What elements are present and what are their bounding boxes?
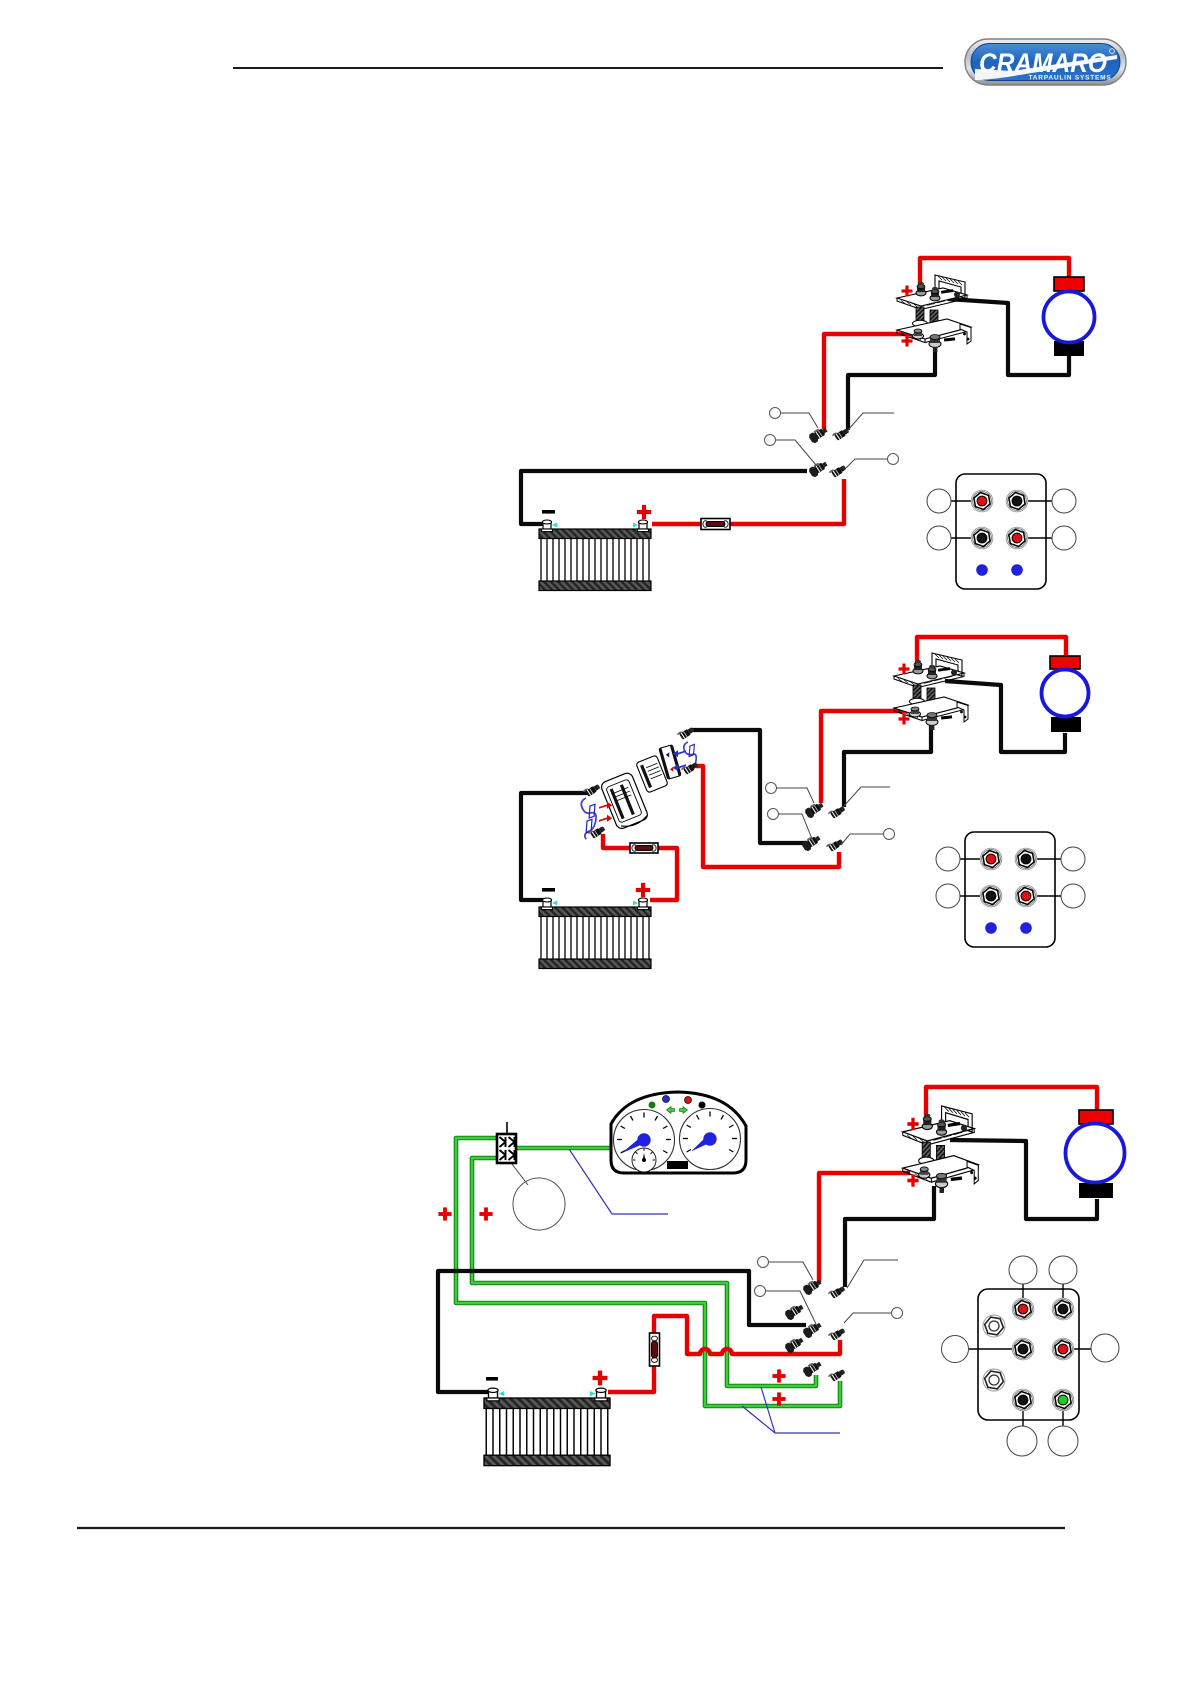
callout leader mid-left bbox=[766, 1291, 816, 1324]
odometer display bbox=[667, 1161, 688, 1169]
connector block CB3 bbox=[942, 1256, 1120, 1456]
callout leader upper-left bbox=[768, 1262, 813, 1280]
wire red assembly to fuse to battery plus bbox=[603, 834, 630, 848]
wire red fuse to connector e with hops bbox=[654, 1316, 840, 1354]
callout leader lower-right bbox=[841, 834, 884, 845]
battery switch assembly (exploded) bbox=[581, 725, 699, 840]
middle housing bbox=[636, 755, 668, 793]
plus label switch feed 1 bbox=[438, 1207, 451, 1220]
callout leader upper-left bbox=[781, 413, 818, 428]
assembly terminals bbox=[583, 782, 601, 798]
wire black relay plate to motor bbox=[945, 681, 1065, 752]
fuse F1 bbox=[701, 519, 730, 530]
relay K3 bbox=[903, 1106, 978, 1193]
blue clip right bbox=[684, 742, 696, 770]
wire black upper connector to relay bottom terminal bbox=[848, 344, 935, 430]
callout leader mid-right bbox=[844, 1313, 891, 1323]
blue clip left bbox=[581, 798, 596, 839]
wire black relay bottom to upper connector bbox=[844, 722, 931, 807]
motor M1 bbox=[1044, 277, 1095, 356]
battery minus label bbox=[542, 510, 555, 514]
callout leader upper-right bbox=[848, 413, 894, 430]
blue leader cluster wire bbox=[569, 1149, 668, 1214]
relay K2 bbox=[894, 653, 968, 730]
connector bullet e (red wire) bbox=[828, 1326, 846, 1342]
footer rule bbox=[77, 1527, 1065, 1529]
connector bullet c bbox=[784, 1302, 806, 1321]
connector pair lower bbox=[808, 459, 830, 478]
svg-text:TARPAULIN SYSTEMS: TARPAULIN SYSTEMS bbox=[1028, 75, 1111, 82]
wire green switch feed 2 bbox=[472, 1158, 816, 1386]
battery plus label bbox=[636, 883, 650, 897]
wire red motor top bbox=[917, 637, 1066, 665]
right connector body bbox=[659, 745, 681, 780]
connector bullet g (green wire) bbox=[802, 1359, 824, 1378]
instrument cluster bbox=[611, 1092, 746, 1173]
callout leader lower-right bbox=[846, 459, 888, 468]
header rule bbox=[233, 67, 943, 69]
right gauge bbox=[680, 1109, 741, 1170]
leader switch to big circle bbox=[512, 1164, 528, 1185]
motor M2 bbox=[1042, 656, 1089, 732]
wire red relay to connector a bbox=[819, 1173, 910, 1282]
CRAMARO logo bbox=[965, 39, 1126, 85]
wire red relay to upper connector bbox=[821, 711, 913, 803]
left gauge bbox=[614, 1110, 675, 1173]
turn signal arrows bbox=[667, 1107, 675, 1114]
wire black relay plate to motor bbox=[950, 1140, 1097, 1219]
relay K1 bbox=[897, 275, 971, 352]
svg-text:CRAMARO: CRAMARO bbox=[979, 48, 1107, 78]
connector bullet d (black wire) bbox=[802, 1320, 824, 1339]
callout leader upper-left bbox=[776, 788, 814, 803]
wire red battery plus to fuse riser bbox=[608, 1366, 654, 1392]
wire green switch to cluster bbox=[516, 1146, 611, 1151]
connector bullet h (green wire) bbox=[828, 1367, 846, 1383]
plus label switch feed 2 bbox=[479, 1207, 492, 1220]
blue arrows bbox=[673, 750, 686, 757]
left housing bbox=[600, 771, 650, 831]
wire red assembly right to lower connector bbox=[696, 766, 839, 867]
callout big circle bbox=[513, 1178, 565, 1230]
red arrows bbox=[599, 802, 612, 809]
plus label green wire 2 bbox=[772, 1392, 785, 1405]
connector block CB2 bbox=[936, 832, 1085, 947]
callout leader upper-right bbox=[847, 1260, 898, 1288]
connector bullet f bbox=[784, 1335, 806, 1354]
wire red battery plus to fuse to lower connector bbox=[652, 479, 844, 524]
connector pair lower bbox=[801, 833, 823, 852]
battery B2 bbox=[539, 898, 651, 969]
callout leader mid-left bbox=[778, 814, 812, 839]
wire red motor top bbox=[926, 1087, 1097, 1120]
connector pair upper bbox=[808, 425, 830, 444]
connector pair upper bbox=[804, 800, 826, 819]
callout leader upper-right bbox=[843, 787, 890, 807]
connector bullet b (black feed) bbox=[828, 1284, 846, 1300]
wire red motor top bbox=[920, 258, 1069, 288]
connector block CB1 bbox=[927, 474, 1076, 589]
callout leader mid-left bbox=[776, 440, 816, 465]
plus label green wire 1 bbox=[772, 1369, 785, 1382]
battery B3 bbox=[484, 1388, 610, 1466]
wire black assembly to lower connector bbox=[692, 730, 805, 843]
battery plus label bbox=[637, 505, 651, 519]
battery minus label bbox=[486, 1377, 498, 1381]
wire black battery minus loop bbox=[438, 1271, 806, 1392]
blue leader green wires bbox=[742, 1406, 840, 1433]
fuse F2 bbox=[630, 843, 658, 853]
wire green switch feed 1 bbox=[456, 1138, 840, 1406]
wire black battery minus to lower connector bbox=[521, 471, 807, 524]
wire black relay plate to motor bbox=[948, 299, 1069, 375]
connector bullet a (red feed) bbox=[802, 1277, 824, 1296]
wire black relay bottom to connector b bbox=[845, 1186, 934, 1287]
motor M3 bbox=[1066, 1110, 1125, 1198]
wire black battery minus to assembly bbox=[521, 793, 588, 900]
wire red upper connector to relay bbox=[824, 334, 913, 429]
battery plus label bbox=[593, 1371, 608, 1386]
indicator lamps bbox=[649, 1102, 656, 1109]
fuse F3 vertical bbox=[650, 1333, 660, 1366]
battery minus label bbox=[542, 888, 555, 892]
dashboard switch bbox=[497, 1122, 516, 1163]
battery B1 bbox=[539, 520, 651, 591]
